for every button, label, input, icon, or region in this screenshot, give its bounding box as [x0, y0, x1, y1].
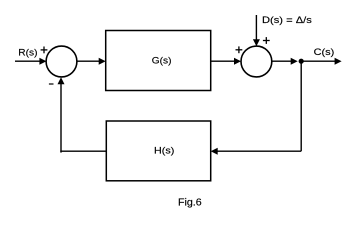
wire D(s) into S2 (downward arrow): [253, 15, 260, 46]
svg-text:Fig.6: Fig.6: [178, 198, 202, 209]
svg-text:H(s): H(s): [154, 145, 174, 156]
svg-text:C(s): C(s): [314, 47, 335, 58]
junction node dot: [299, 59, 304, 64]
wire feedback into H(s): [211, 148, 302, 155]
plus sign at S2 (left input): [236, 46, 243, 53]
minus sign at summing junction S1: [49, 83, 54, 85]
block H(s): [106, 121, 210, 181]
wire S2 to junction node: [272, 58, 298, 65]
svg-text:G(s): G(s): [152, 55, 172, 66]
wire G(s) to S2: [211, 58, 241, 65]
wire R(s) input arrow: [15, 58, 46, 65]
wire node to C(s) output: [301, 58, 341, 65]
wire node down (feedback tap): [300, 61, 302, 151]
wire H(s) output to left corner: [60, 150, 106, 152]
svg-text:D(s) = Δ/s: D(s) = Δ/s: [262, 15, 312, 26]
summing junction S1: [46, 46, 77, 77]
block G(s): [106, 31, 211, 91]
wire up into S1 (feedback): [58, 77, 65, 152]
plus sign at S2 (top input): [263, 37, 270, 44]
plus sign at summing junction S1: [41, 47, 48, 54]
wire S1 to G(s): [77, 58, 106, 65]
svg-text:R(s): R(s): [18, 47, 37, 58]
summing junction S2: [241, 46, 272, 77]
